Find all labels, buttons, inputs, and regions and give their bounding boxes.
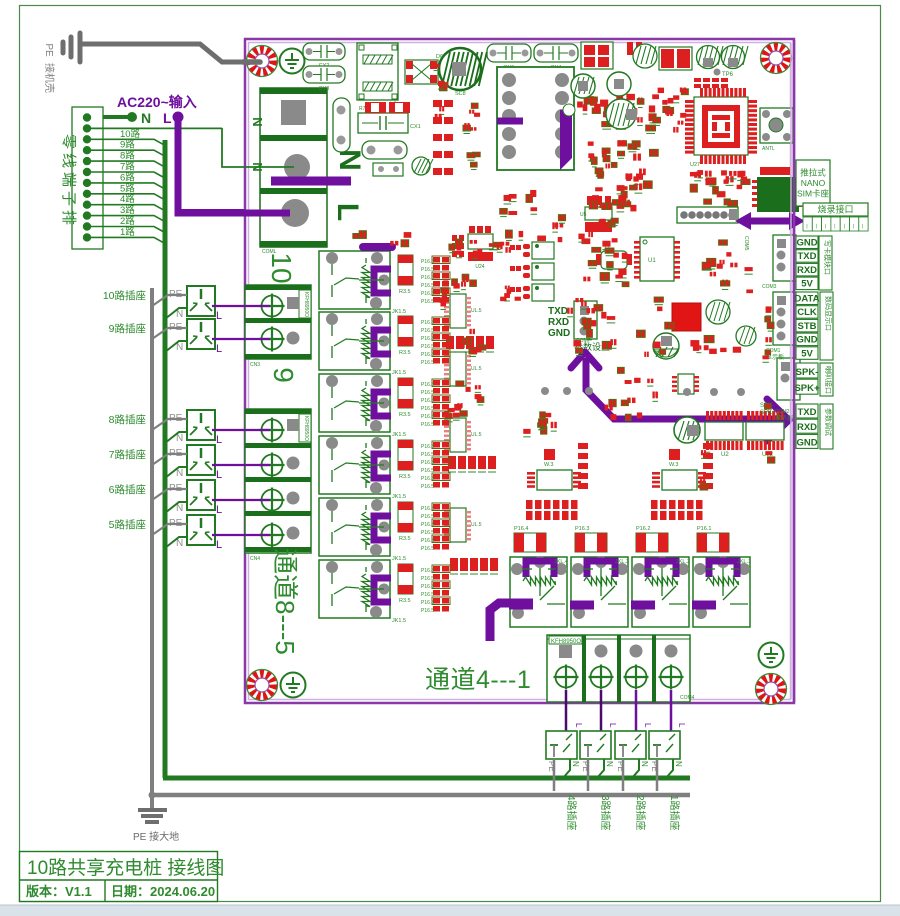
svg-text:P16.5: P16.5 [421,584,434,590]
svg-text:GND: GND [796,437,817,448]
svg-text:P16.5: P16.5 [421,336,434,342]
svg-text:P16.5: P16.5 [421,360,434,366]
svg-text:JKL.3: JKL.3 [615,559,629,565]
svg-text:JK1.5: JK1.5 [392,556,406,562]
svg-text:AC220~输入: AC220~输入 [117,94,197,110]
svg-text:L: L [677,723,686,728]
svg-text:P16.5: P16.5 [421,476,434,482]
svg-text:DATA: DATA [795,294,820,305]
svg-text:CY3: CY3 [319,86,330,92]
svg-text:参数调试: 参数调试 [824,408,833,436]
svg-text:CN3: CN3 [250,362,260,368]
svg-text:KFH8950O: KFH8950O [303,416,309,441]
svg-text:NANO: NANO [801,178,826,188]
svg-text:P16.5: P16.5 [421,546,434,552]
svg-text:GND: GND [796,238,817,249]
svg-text:N: N [674,761,683,767]
svg-text:SIM卡座: SIM卡座 [797,188,830,198]
svg-text:U2: U2 [721,452,729,458]
svg-text:9路: 9路 [120,139,135,151]
svg-text:UL.5: UL.5 [471,366,482,372]
svg-text:P16.5: P16.5 [421,414,434,420]
svg-text:L: L [643,723,652,728]
svg-text:KFH8950O: KFH8950O [551,639,581,645]
svg-text:PE: PE [43,43,54,57]
svg-text:JKL.2: JKL.2 [676,559,690,565]
svg-text:L: L [216,434,222,446]
svg-text:JK1.5: JK1.5 [392,370,406,376]
svg-text:丨: 丨 [832,224,837,230]
svg-text:版本：V1.1: 版本：V1.1 [26,884,92,899]
svg-text:1路插座: 1路插座 [668,795,681,831]
svg-text:L: L [574,723,583,728]
svg-text:L: L [216,469,222,481]
svg-text:接机壳: 接机壳 [43,63,56,93]
svg-text:JK1.5: JK1.5 [392,618,406,624]
svg-text:COM5: COM5 [743,236,749,251]
svg-text:3路: 3路 [120,204,135,216]
svg-text:3路插座: 3路插座 [599,795,612,831]
svg-text:零线端子排: 零线端子排 [60,134,77,229]
svg-text:P16.5: P16.5 [421,506,434,512]
svg-text:L: L [216,504,222,516]
svg-text:推拉式: 推拉式 [800,167,826,177]
svg-text:UL.5: UL.5 [471,432,482,438]
svg-text:GND: GND [548,328,570,339]
svg-text:TXD: TXD [548,306,568,317]
svg-text:L: L [608,723,617,728]
svg-text:W.3: W.3 [669,462,678,468]
svg-text:JK1.5: JK1.5 [392,309,406,315]
svg-text:SPK-: SPK- [796,367,819,378]
svg-text:P16.5: P16.5 [421,444,434,450]
svg-text:U5: U5 [580,212,587,218]
svg-text:9路插座: 9路插座 [109,322,146,335]
svg-text:2路: 2路 [120,215,135,227]
svg-text:L: L [331,203,364,221]
svg-text:8路插座: 8路插座 [109,413,146,426]
svg-text:W.3: W.3 [544,462,553,468]
svg-text:通道4---1: 通道4---1 [425,666,531,694]
svg-text:R3.5: R3.5 [399,598,411,604]
svg-text:U27: U27 [690,162,700,168]
svg-text:P16.5: P16.5 [421,352,434,358]
svg-text:L: L [216,343,222,355]
svg-text:6路插座: 6路插座 [109,483,146,496]
svg-text:P16.1: P16.1 [697,526,711,532]
svg-text:N: N [605,761,614,767]
svg-text:CLK: CLK [797,307,817,318]
svg-text:UL.5: UL.5 [471,308,482,314]
svg-text:日期：2024.06.20: 日期：2024.06.20 [111,884,215,899]
svg-text:CX1: CX1 [410,124,421,130]
svg-text:N: N [141,110,151,126]
svg-text:RXD: RXD [797,422,817,433]
svg-text:N: N [640,761,649,767]
svg-text:7路插座: 7路插座 [109,448,146,461]
svg-text:P16.5: P16.5 [421,422,434,428]
svg-text:COM4: COM4 [680,695,695,701]
svg-text:TXD: TXD [798,407,817,418]
svg-text:U1: U1 [648,258,656,264]
svg-text:喇叭接口: 喇叭接口 [824,366,833,394]
svg-text:TP6: TP6 [722,72,734,78]
svg-text:RXD: RXD [548,317,569,328]
svg-text:丨: 丨 [842,224,847,230]
svg-text:丨: 丨 [804,224,809,230]
svg-text:U24: U24 [475,264,484,270]
svg-text:RXD: RXD [797,265,817,276]
svg-text:9: 9 [268,367,299,383]
svg-text:通道8---5: 通道8---5 [270,548,300,655]
svg-text:P16.5: P16.5 [421,398,434,404]
svg-text:P16.5: P16.5 [421,484,434,490]
svg-text:P16.5: P16.5 [421,608,434,614]
svg-text:丨: 丨 [851,224,856,230]
svg-text:P16.5: P16.5 [421,320,434,326]
svg-text:P16.4: P16.4 [514,526,528,532]
svg-text:1路: 1路 [120,226,135,238]
svg-text:10路: 10路 [120,128,141,140]
svg-text:10: 10 [266,252,297,283]
svg-text:SPK+: SPK+ [794,383,820,394]
svg-text:P16.5: P16.5 [421,522,434,528]
svg-text:L: L [163,110,172,126]
svg-text:4路: 4路 [120,193,135,205]
svg-text:6路: 6路 [120,171,135,183]
svg-text:GND: GND [796,335,817,346]
svg-text:R3.5: R3.5 [399,289,411,295]
svg-text:7路: 7路 [120,161,135,173]
svg-text:5路: 5路 [120,182,135,194]
svg-text:ANTL: ANTL [762,146,775,152]
svg-text:8路: 8路 [120,150,135,162]
svg-text:JK1.5: JK1.5 [392,494,406,500]
svg-text:R3.5: R3.5 [399,412,411,418]
svg-text:P16.5: P16.5 [421,382,434,388]
svg-text:SC8: SC8 [455,91,466,97]
svg-text:10路共享充电桩 接线图: 10路共享充电桩 接线图 [27,857,224,879]
svg-text:烧录接口: 烧录接口 [817,204,853,215]
svg-text:5V: 5V [801,348,813,359]
svg-text:JK1.5: JK1.5 [392,432,406,438]
svg-text:P16.5: P16.5 [421,291,434,297]
svg-text:L: L [216,539,222,551]
svg-text:KFH8950O: KFH8950O [303,292,309,317]
svg-text:R3.5: R3.5 [399,350,411,356]
svg-text:P16.5: P16.5 [421,259,434,265]
svg-text:4路插座: 4路插座 [565,795,578,831]
svg-text:写卡模块口: 写卡模块口 [823,240,832,275]
svg-text:N: N [333,149,366,171]
svg-text:SPK+: SPK+ [760,410,776,416]
svg-text:P16.5: P16.5 [421,299,434,305]
svg-text:N: N [571,761,580,767]
svg-text:JKL.1: JKL.1 [737,559,751,565]
svg-text:10路插座: 10路插座 [103,289,146,302]
svg-text:CN4: CN4 [250,556,260,562]
svg-text:JKL.4: JKL.4 [554,559,568,565]
svg-text:丨: 丨 [860,224,865,230]
svg-text:R3.5: R3.5 [399,474,411,480]
svg-text:UL.5: UL.5 [471,522,482,528]
svg-text:P16.2: P16.2 [636,526,650,532]
svg-text:P16.5: P16.5 [421,600,434,606]
svg-text:P16.5: P16.5 [421,460,434,466]
svg-text:2路插座: 2路插座 [634,795,647,831]
svg-text:5V: 5V [801,279,813,290]
svg-text:5路插座: 5路插座 [109,518,146,531]
svg-text:P16.3: P16.3 [575,526,589,532]
svg-text:P16.5: P16.5 [421,275,434,281]
svg-text:COM2: COM2 [775,409,790,415]
svg-text:L: L [216,310,222,322]
svg-text:R3.5: R3.5 [399,536,411,542]
svg-text:数码显示口: 数码显示口 [824,296,833,331]
svg-text:丨: 丨 [814,224,819,230]
svg-text:PE 接大地: PE 接大地 [133,830,179,843]
svg-text:TXD: TXD [798,251,817,262]
svg-text:N: N [250,117,265,126]
svg-text:STB: STB [798,321,817,332]
svg-text:P16.5: P16.5 [421,568,434,574]
svg-text:R7: R7 [359,106,366,112]
svg-text:COM3: COM3 [762,284,777,290]
svg-text:丨: 丨 [823,224,828,230]
svg-text:P16.5: P16.5 [421,538,434,544]
